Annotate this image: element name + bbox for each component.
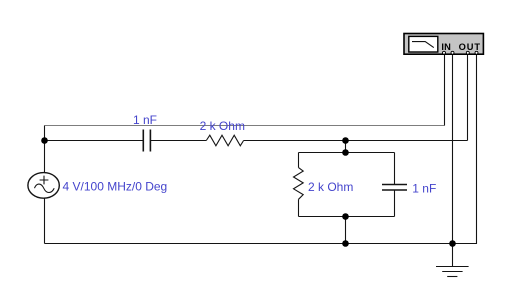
wire tank bottom horizontal <box>299 216 395 218</box>
wire tank left vertical upper <box>298 153 300 168</box>
junction dot tank bottom <box>342 213 349 220</box>
capacitor C1 plates <box>143 130 150 152</box>
capacitor C2 plates <box>382 185 407 191</box>
svg-text:1 nF: 1 nF <box>412 182 436 196</box>
wire IN- vertical from Bode plotter to ground node <box>452 54 454 244</box>
junction dot tank top <box>342 149 349 156</box>
wire capacitor C1 to resistor R1 <box>150 140 206 142</box>
wire ground stem <box>452 244 454 267</box>
wire OUT+ vertical drop from Bode plotter <box>467 54 469 141</box>
svg-text:1 nF: 1 nF <box>133 113 157 127</box>
resistor R2 vertical zigzag <box>294 168 304 200</box>
wire OUT- vertical from Bode plotter down then left to ground node <box>453 54 477 244</box>
wire top horizontal net IN+ (node A to Bode plotter IN+) <box>45 125 445 127</box>
wire mid horizontal segment from node A to capacitor C1 <box>45 140 144 142</box>
resistor R1 horizontal zigzag <box>206 135 243 146</box>
svg-text:2 k Ohm: 2 k Ohm <box>308 180 353 194</box>
node B junction dot on mid wire <box>342 137 349 144</box>
node A junction dot <box>41 137 48 144</box>
wire tank left vertical lower <box>298 199 300 216</box>
wire IN+ vertical drop from Bode plotter <box>444 54 446 126</box>
svg-text:4 V/100 MHz/0 Deg: 4 V/100 MHz/0 Deg <box>63 179 168 193</box>
wire tank top horizontal <box>299 152 395 154</box>
junction dot ground node <box>449 240 456 247</box>
wire source bottom to bottom rail <box>44 199 46 244</box>
Bode plotter XBP1 <box>404 34 483 55</box>
wire bottom rail <box>45 243 453 245</box>
wire tank bottom to bottom rail <box>345 217 347 244</box>
svg-text:OUT: OUT <box>459 42 481 52</box>
wire connector node B to tank top <box>345 141 347 153</box>
junction dot bottom rail <box>342 240 349 247</box>
ground <box>436 267 469 277</box>
wire tank right vertical upper to capacitor C2 <box>394 153 396 185</box>
AC source V1 <box>28 173 59 199</box>
wire left vertical from node A down to source top <box>44 126 46 174</box>
wire resistor R1 right end to OUT+ drop <box>244 140 468 142</box>
svg-text:IN: IN <box>441 42 451 52</box>
wire tank right vertical lower <box>394 190 396 217</box>
svg-text:2 k Ohm: 2 k Ohm <box>200 119 245 133</box>
